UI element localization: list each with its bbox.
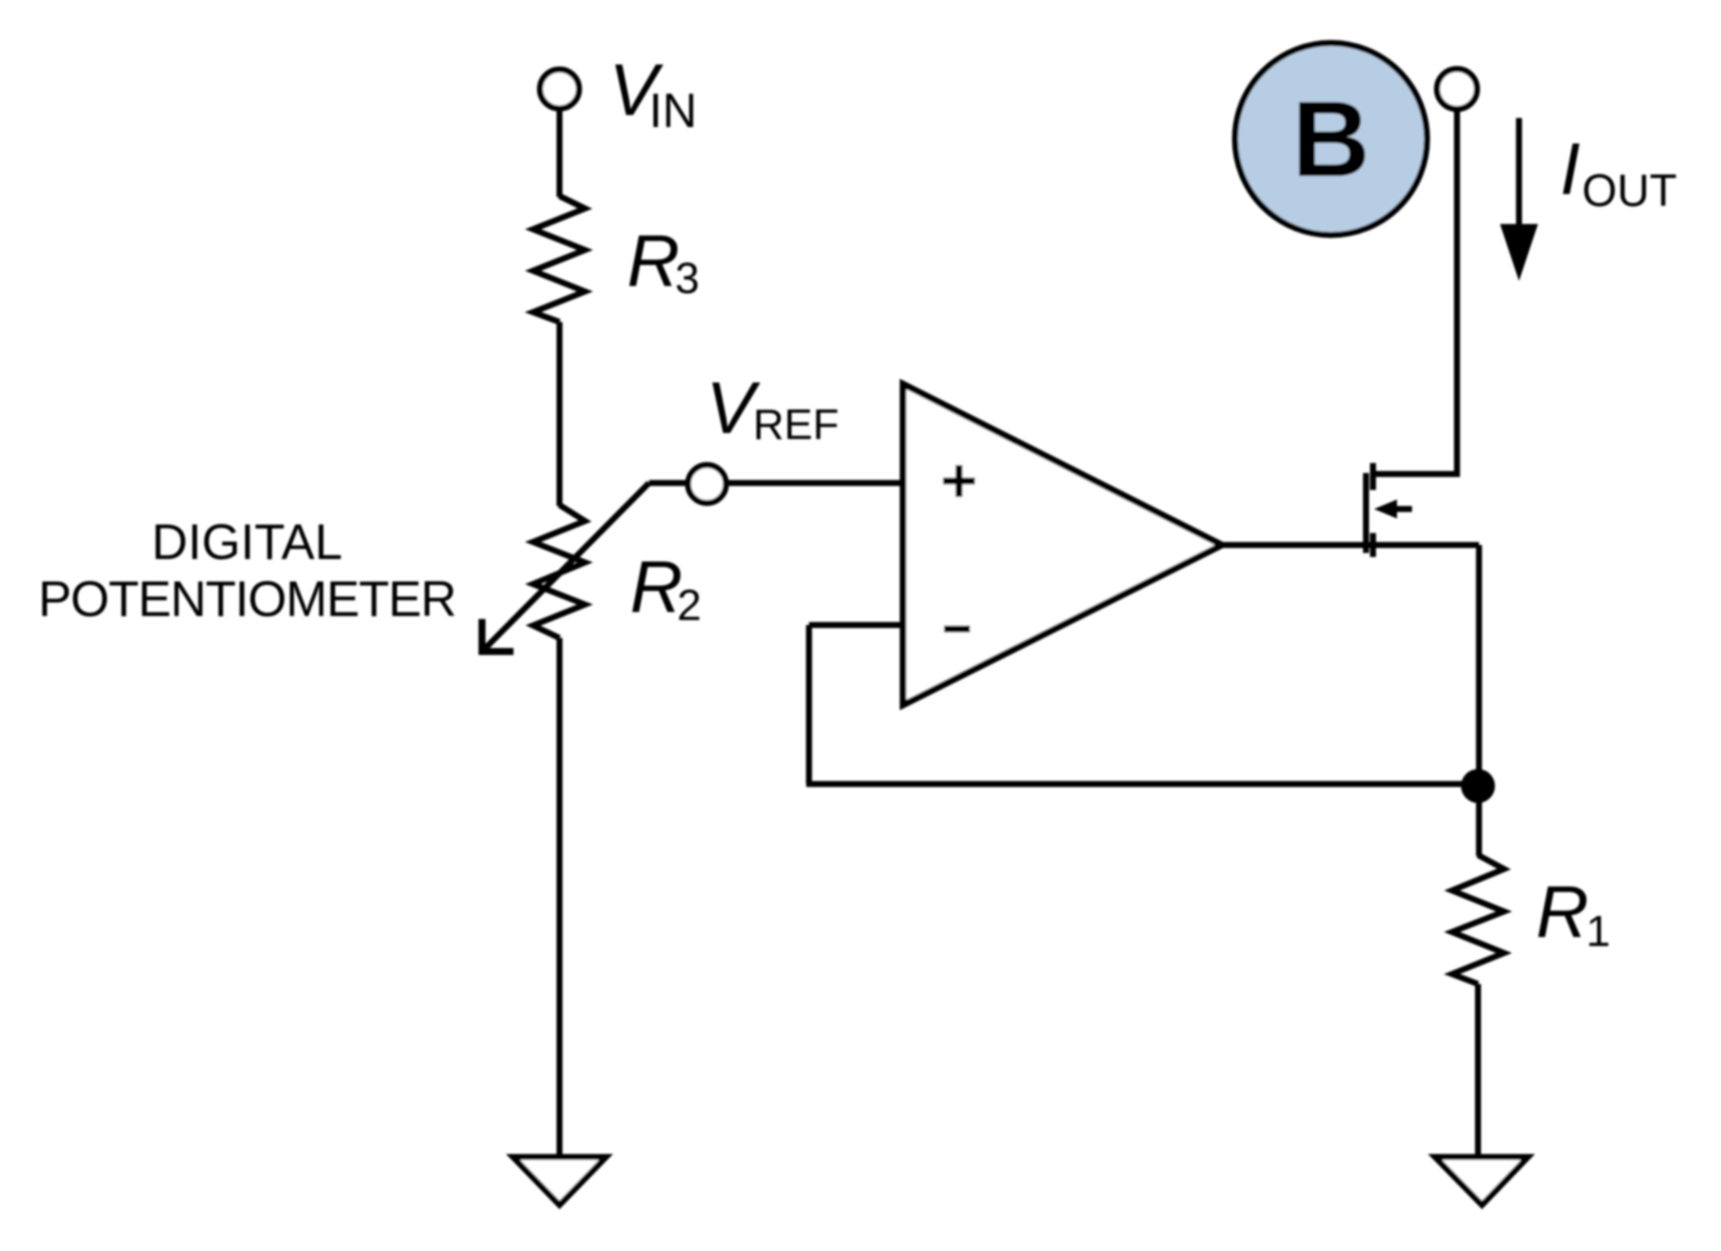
svg-text:R: R	[627, 221, 680, 302]
feedback wire horizontal	[806, 781, 1478, 787]
svg-text:IN: IN	[649, 85, 697, 138]
ground left	[513, 1157, 606, 1205]
transistor Q1 body arrow	[1374, 500, 1412, 519]
node junction dot	[1461, 769, 1495, 803]
plus sign	[943, 465, 975, 497]
IOUT current arrow	[1500, 118, 1538, 281]
callout circle B	[1235, 43, 1427, 235]
drain wire to output terminal	[1373, 107, 1457, 474]
node VREF	[688, 465, 726, 503]
potentiometer R2	[533, 505, 585, 638]
wire wiper to VREF node	[649, 480, 688, 486]
svg-text:POTENTIOMETER: POTENTIOMETER	[38, 571, 456, 627]
svg-text:REF: REF	[753, 401, 839, 449]
wire R2 to ground	[557, 638, 563, 1157]
wire source corner down through node to R1	[1476, 545, 1482, 856]
wiper arrow of R2	[482, 483, 649, 652]
ground right	[1435, 1157, 1528, 1205]
svg-text:R: R	[1536, 872, 1589, 953]
transistor Q1 drain segment	[1370, 463, 1376, 490]
wire R1 to ground	[1475, 984, 1481, 1157]
svg-text:3: 3	[675, 254, 699, 303]
svg-text:OUT: OUT	[1582, 165, 1677, 216]
wire VREF to op-amp + input	[726, 480, 904, 486]
svg-text:R: R	[630, 547, 683, 628]
resistor R1	[1452, 855, 1504, 984]
op-amp U1	[903, 384, 1222, 705]
feedback wire vertical	[806, 625, 812, 784]
terminal VIN	[540, 70, 579, 109]
svg-text:DIGITAL: DIGITAL	[152, 514, 343, 570]
svg-text:B: B	[1292, 78, 1370, 199]
svg-text:2: 2	[677, 581, 701, 630]
minus sign	[944, 626, 970, 633]
wire R3 to R2	[557, 322, 563, 506]
transistor Q1 gate bar	[1363, 473, 1369, 553]
terminal IOUT	[1437, 69, 1477, 109]
wire VIN to R3	[557, 109, 563, 198]
transistor Q1 source segment	[1370, 533, 1376, 557]
wire - input	[809, 622, 903, 628]
resistor R3	[533, 196, 585, 322]
op-amp output wire to MOSFET gate / source line	[1222, 542, 1479, 548]
svg-text:1: 1	[1586, 907, 1610, 956]
svg-text:I: I	[1560, 129, 1580, 210]
